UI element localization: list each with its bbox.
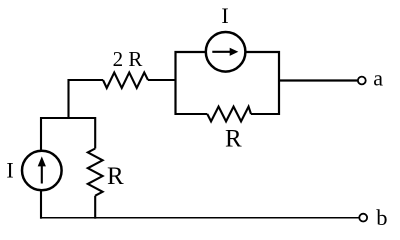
svg-text:b: b — [376, 205, 387, 230]
svg-text:R: R — [225, 126, 242, 153]
wire: 2R resistor to parallel box left edge — [148, 79, 176, 81]
wire: parallel box bottom left segment — [176, 113, 208, 115]
resistor 2R (horizontal zigzag) — [103, 73, 148, 89]
terminal a (open circle) — [358, 77, 366, 85]
terminal b (open circle) — [359, 214, 367, 222]
resistor R (vertical zigzag, left section) — [88, 149, 103, 196]
current source I (top, arrow right) — [206, 32, 246, 72]
current source I (left, arrow up) — [22, 151, 62, 191]
resistor R (horizontal zigzag in box bottom) — [207, 107, 251, 122]
wire: left section top with branch corners — [41, 118, 95, 152]
svg-text:R: R — [107, 163, 124, 190]
wire: parallel box left + top + right edges — [176, 52, 280, 115]
wire: box right edge to terminal a — [279, 79, 358, 81]
wire: current source bottom to bottom rail — [40, 190, 42, 219]
svg-text:2 R: 2 R — [113, 47, 143, 71]
wire: vertical resistor bottom to bottom rail — [94, 196, 96, 219]
svg-text:a: a — [373, 66, 383, 91]
wire: parallel box bottom right segment — [251, 113, 279, 115]
wire: bottom rail to terminal b — [41, 217, 359, 219]
svg-text:I: I — [6, 158, 13, 183]
svg-text:I: I — [221, 3, 228, 28]
wire: node junction to 2R resistor and down to left section — [69, 80, 104, 118]
